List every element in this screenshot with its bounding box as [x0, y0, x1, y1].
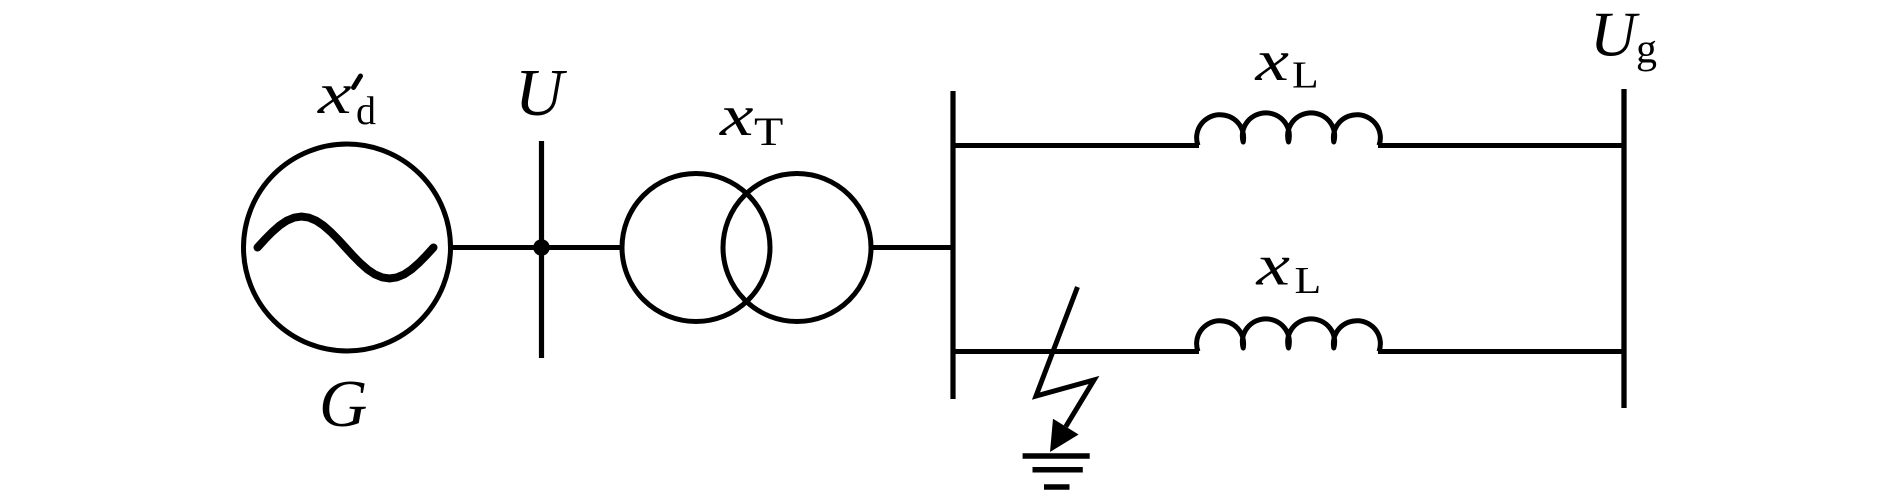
right busbar: [1621, 89, 1626, 408]
label xT: [719, 83, 783, 154]
inductor xL bottom: [1197, 319, 1381, 352]
svg-text:L: L: [1295, 260, 1322, 302]
junction dot: [533, 239, 550, 256]
generator sine wave: [258, 217, 434, 279]
svg-text:x: x: [1255, 233, 1290, 298]
label Ug: [1590, 0, 1657, 73]
svg-text:T: T: [754, 110, 783, 154]
fault lightning bolt: [1036, 287, 1094, 427]
fault arrowhead: [1050, 419, 1079, 452]
wire top line left segment: [953, 143, 1199, 148]
label xL bottom: [1255, 233, 1321, 302]
wire top line right segment: [1378, 143, 1624, 148]
inductor xL top: [1197, 113, 1381, 146]
svg-text:U: U: [515, 56, 568, 130]
left busbar: [950, 91, 955, 399]
bus U: [539, 141, 544, 358]
ground bottom line: [1044, 484, 1070, 490]
svg-text:d: d: [356, 88, 376, 133]
svg-text:g: g: [1636, 27, 1657, 73]
transformer xT right winding: [723, 174, 871, 322]
generator G circle: [244, 144, 451, 351]
svg-text:U: U: [1590, 0, 1640, 70]
svg-text:x: x: [1254, 28, 1289, 93]
ground middle line: [1033, 467, 1083, 473]
transformer xT left winding: [622, 174, 770, 322]
svg-text:L: L: [1292, 54, 1319, 96]
svg-text:G: G: [319, 367, 367, 441]
wire bottom line left segment: [953, 349, 1199, 354]
wire transformer to left busbar: [871, 245, 953, 250]
svg-text:x: x: [719, 83, 754, 148]
label xL top: [1254, 28, 1318, 96]
label x'd: [317, 61, 376, 133]
svg-text:x: x: [317, 61, 352, 126]
wire generator to transformer: [449, 245, 624, 250]
wire bottom line right segment: [1378, 349, 1624, 354]
ground top line: [1023, 453, 1090, 459]
